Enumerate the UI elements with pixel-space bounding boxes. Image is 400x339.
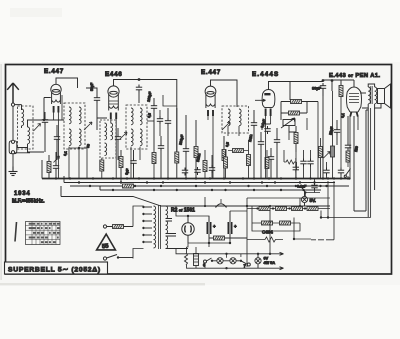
capacitor C5 (tuning gang 2): [115, 134, 121, 142]
svg-text:1934: 1934: [14, 191, 31, 197]
wire transformer to rectifier bottom: [176, 243, 199, 254]
mains transformer T7 primary taps: [142, 206, 152, 243]
resistor R5: [194, 147, 198, 158]
wire grid V1: [33, 98, 64, 121]
antenna coil T1 (dashed box): [18, 106, 34, 149]
trimmer TC3: [222, 122, 230, 130]
resistor R1 300ohm: [47, 162, 51, 173]
wire V3 pins down: [208, 116, 213, 179]
transformer T7 secondary coils: [166, 206, 168, 219]
capacitor C6: [151, 103, 157, 111]
capacitor C31: [264, 126, 270, 134]
antenna terminal: [11, 103, 14, 106]
svg-text:E446: E446: [105, 71, 123, 78]
tube V4 E444S: [255, 90, 275, 117]
table cell entries: [29, 223, 60, 244]
wire V4 top cap: [269, 82, 291, 101]
wire V5 pins down: [350, 116, 358, 179]
wire V4 cathode: [262, 124, 271, 130]
terminal: [103, 225, 106, 228]
resistor R10: [339, 86, 343, 97]
wire plate V1 region: [163, 95, 177, 106]
resistor R12: [119, 157, 123, 168]
bus wire B3: [70, 185, 349, 187]
junction dots lower buses: [78, 181, 80, 183]
IF transformer T5 (dashed box): [222, 106, 249, 133]
resistor R6: [291, 100, 302, 104]
arrow right rail: [280, 252, 284, 255]
resistor R24 (box): [194, 254, 199, 266]
warning triangle 55: [97, 234, 116, 250]
capacitor C25: [300, 159, 306, 167]
wire mesh right: [270, 108, 371, 254]
svg-text:80µF: 80µF: [312, 86, 322, 91]
coil L4a: [131, 108, 133, 125]
coil L3c: [105, 143, 107, 156]
capacitor C28: [345, 143, 351, 151]
resistor R29: [233, 149, 244, 153]
capacitor C3 (tuning gang 1): [54, 134, 60, 142]
svg-text:E.444S: E.444S: [252, 71, 279, 78]
capacitor C15 50uF: [334, 127, 340, 135]
resistor R21: [280, 221, 291, 225]
wire V5 plate: [360, 92, 366, 94]
border frame: [6, 65, 392, 275]
svg-text:E.447: E.447: [44, 68, 64, 75]
electrolytic C18: [208, 222, 211, 234]
resistor R17: [276, 207, 287, 211]
lamp LP3: [230, 258, 236, 264]
antenna: [7, 83, 19, 103]
resistor R13 horizontal on bus: [123, 184, 134, 188]
svg-text:SUPERBELL 5∼ (2052Δ): SUPERBELL 5∼ (2052Δ): [8, 267, 101, 274]
wire resistor row 2: [252, 206, 300, 231]
coil L2d: [79, 129, 81, 146]
transformer T7 primary coil: [154, 206, 156, 248]
resistor R30: [265, 158, 269, 169]
svg-text:6V: 6V: [264, 257, 269, 261]
svg-text:0,5: 0,5: [147, 113, 152, 118]
wire V2 pins down: [111, 119, 116, 179]
wire box C grid link: [147, 120, 154, 122]
bus wire B4: [100, 189, 321, 191]
svg-text:4W 5A: 4W 5A: [264, 261, 276, 265]
trimmer TC1: [84, 122, 92, 130]
capacitor C2: [42, 117, 48, 125]
heater rail wires: [247, 198, 330, 267]
capacitor C10: [258, 139, 264, 147]
bottom rail wire 2: [205, 267, 280, 269]
trimmer TC0: [34, 124, 41, 132]
resistor R20: [262, 221, 273, 225]
svg-text:0,5: 0,5: [225, 142, 230, 147]
svg-text:R2 of 1561: R2 of 1561: [171, 208, 195, 214]
svg-text:50µF: 50µF: [90, 82, 94, 91]
trimmer TC2: [120, 132, 127, 139]
svg-text:6µF: 6µF: [125, 167, 130, 175]
lamp LP2: [217, 258, 223, 264]
resistor R23: [185, 253, 188, 265]
svg-text:0,1: 0,1: [63, 151, 68, 156]
coil L5a: [228, 109, 230, 126]
svg-text:500µF: 500µF: [179, 134, 185, 146]
capacitor C20: [338, 168, 344, 176]
title box SUPERBELL 5 (2052A): [5, 262, 108, 274]
svg-text:+: +: [234, 224, 237, 229]
tube V3 E447: [205, 86, 216, 116]
wire box C bottom leads: [131, 147, 140, 179]
capacitor C17 6uF: [130, 158, 136, 166]
capacitor C12: [274, 137, 280, 145]
capacitor C4: [94, 95, 100, 103]
lamp LP4 6V: [255, 258, 261, 264]
wire V3 top cap: [211, 80, 238, 107]
resistor R3: [175, 152, 179, 163]
IF transformer T4 (dashed box): [126, 105, 147, 149]
wire V5 cathode down: [348, 110, 368, 211]
coil L4d: [140, 129, 142, 146]
coil L4b: [140, 108, 142, 125]
resistor R18: [292, 207, 303, 211]
coil L4c: [131, 129, 133, 146]
wire right column drops: [277, 102, 318, 179]
resistor R8: [294, 133, 298, 144]
resistor R28: [247, 155, 251, 166]
wire V1 top cap: [56, 78, 78, 88]
resistor R27: [224, 157, 228, 168]
switch S1: [103, 257, 106, 260]
capacitor C30: [157, 116, 163, 124]
resistor R4: [222, 150, 226, 161]
wire mains input: [133, 206, 144, 259]
svg-text:0.1µF: 0.1µF: [297, 185, 307, 189]
resistor R16: [259, 207, 270, 211]
wire V2 top cap: [114, 80, 177, 153]
valve data table: [26, 222, 61, 245]
resistor R32 300ohm: [152, 153, 156, 164]
tube V2 E446: [108, 86, 119, 119]
coil L1b: [28, 127, 30, 144]
wire coil secondary: [28, 120, 45, 152]
resistor R14: [113, 225, 124, 229]
wire resistor row 1: [247, 208, 330, 210]
transformer secondary leads: [166, 206, 189, 249]
capacitor C24: [293, 165, 299, 173]
svg-text:E.447: E.447: [201, 69, 221, 76]
capacitor C9: [251, 120, 257, 128]
switch S4: [346, 169, 351, 176]
svg-text:M.F.=455 kHz.: M.F.=455 kHz.: [12, 199, 45, 205]
ground G1: [9, 167, 18, 176]
wire rectifier output: [176, 206, 209, 222]
resistor R11: [346, 151, 350, 162]
coil L2b: [79, 107, 81, 124]
choke bracket C64: [216, 204, 227, 208]
wire jack to ground bus: [12, 154, 14, 168]
wire output return: [368, 108, 374, 217]
resistor R26: [203, 161, 207, 172]
bus wire B5: [61, 197, 330, 207]
bottom rail wire: [199, 253, 280, 255]
resistor R33: [100, 160, 104, 171]
tube V5 E443 output pentode: [347, 87, 362, 117]
transformer T7 core: [159, 205, 161, 249]
tube V1 E447: [51, 84, 61, 112]
resistor R9 (zigzag): [284, 160, 296, 164]
capacitor C16: [53, 163, 59, 171]
svg-text:50µF: 50µF: [329, 126, 335, 136]
pick-up jack P1: [9, 141, 17, 154]
wire chain to top rail: [227, 254, 241, 258]
wire V4 pins down: [266, 116, 271, 179]
bus B1 junction dots: [55, 177, 57, 179]
svg-text:50: 50: [86, 144, 91, 149]
svg-text:100µF: 100µF: [147, 91, 153, 103]
rectifier tube R2: [182, 223, 194, 235]
wire antenna to coil: [21, 108, 23, 128]
capacitor C8: [165, 118, 171, 126]
coil L5b: [239, 109, 241, 126]
capacitor C13: [268, 154, 274, 162]
resistor R15: [214, 236, 225, 240]
switch S3: [241, 261, 247, 264]
wire detector mesh: [281, 102, 318, 133]
capacitor C7: [158, 143, 164, 151]
svg-text:50kΩ: 50kΩ: [196, 153, 201, 162]
resistor R25: [331, 146, 335, 157]
svg-text:5V.: 5V.: [310, 198, 316, 203]
wire box B bottom leads: [69, 147, 87, 179]
capacitor C23: [209, 165, 215, 173]
wire V1 pins down: [54, 95, 62, 179]
oscillator coil T3 (dashed box): [100, 120, 116, 158]
electrolytic C19: [229, 222, 232, 234]
capacitor C-top at V2: [136, 85, 142, 93]
wire speaker/transformer: [362, 84, 381, 108]
capacitor C29: [323, 168, 329, 176]
wire electrolytic bottoms: [188, 211, 247, 247]
wire V2 grid: [97, 112, 107, 130]
wire jack right: [15, 148, 30, 153]
switch S2: [204, 260, 207, 263]
svg-text:1MΩ: 1MΩ: [248, 134, 253, 142]
resistor R7: [289, 111, 300, 115]
capacitor C26: [307, 159, 313, 167]
wire C2: [44, 112, 46, 152]
speaker LS: [378, 89, 385, 104]
svg-text:E.443 or PEN A1.: E.443 or PEN A1.: [329, 73, 381, 79]
wire long loop lower: [204, 197, 206, 206]
capacitor C14 80uF: [320, 83, 326, 91]
capacitor C27 8uF: [311, 183, 317, 191]
coil L3b: [111, 123, 113, 140]
arrow right rail 2: [280, 267, 284, 270]
resistor R22 zigzag: [263, 237, 278, 242]
coil L1a: [22, 109, 24, 126]
wire C4: [86, 88, 97, 112]
capacitor C21: [182, 168, 188, 176]
svg-text:55: 55: [102, 243, 110, 250]
trimmer TC4: [324, 152, 331, 159]
svg-text:C464: C464: [262, 230, 273, 235]
pen tick mark: [15, 222, 17, 242]
bus wire B2: [64, 182, 335, 184]
trimmer TC5: [54, 156, 60, 163]
bus wire B1: [42, 178, 350, 180]
coil L2c: [69, 129, 71, 146]
lamp LP1 5V: [301, 196, 307, 202]
capacitor C22: [194, 167, 200, 175]
svg-text:+: +: [213, 224, 216, 229]
RF coil T2 (dashed box): [64, 103, 85, 149]
wire drops from buses: [42, 160, 100, 197]
resistor R19: [307, 207, 318, 211]
output transformer T6: [368, 87, 370, 104]
wire box D bottom leads: [228, 126, 239, 136]
svg-text:150: 150: [354, 146, 359, 152]
resistor R31: [319, 147, 323, 158]
svg-text:0,1: 0,1: [341, 113, 346, 118]
volume potentiometer VR1: [283, 120, 295, 126]
coil L3a: [105, 123, 107, 140]
capacitor C11: [183, 146, 189, 154]
coil L2a: [69, 107, 71, 124]
wire HT rail top: [290, 80, 354, 87]
